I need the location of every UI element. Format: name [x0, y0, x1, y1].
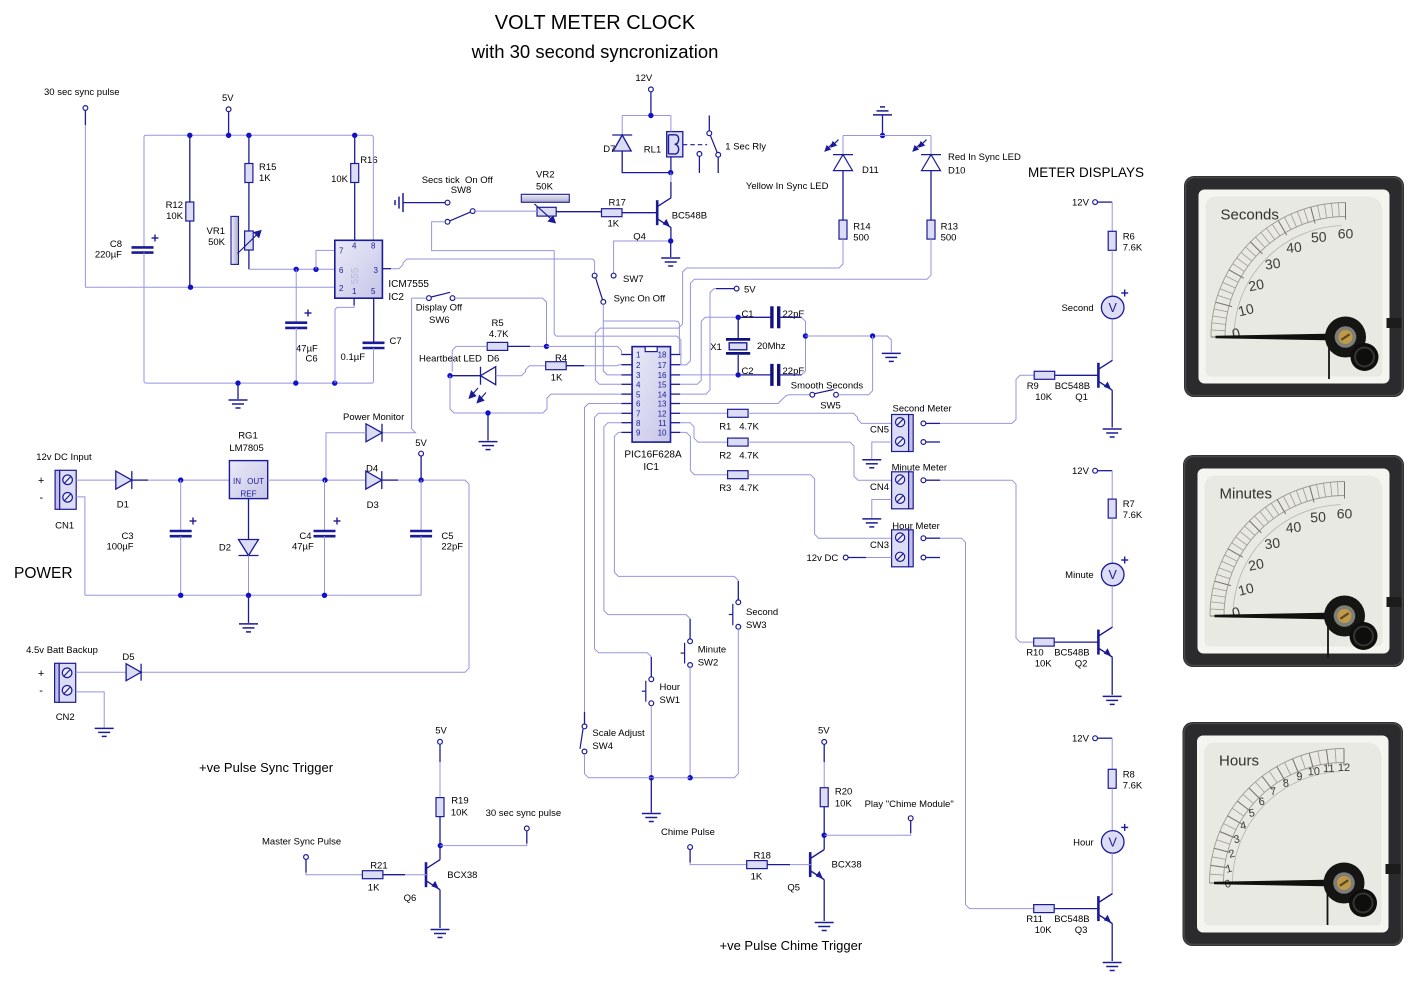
wire Q6 collector lead	[439, 846, 441, 860]
svg-text:5V: 5V	[435, 726, 447, 737]
svg-text:SW8: SW8	[451, 185, 472, 196]
terminal SW7 common	[601, 300, 606, 305]
svg-text:IC2: IC2	[388, 292, 404, 303]
pin 9 lead	[622, 431, 633, 433]
meter display Hours	[1183, 722, 1404, 946]
svg-text:1 Sec Rly: 1 Sec Rly	[725, 142, 766, 153]
capacitor C3	[170, 531, 192, 536]
wire SW4 top lead	[584, 712, 586, 724]
wire Q4 emitter to SW7	[614, 241, 668, 273]
svg-text:C3: C3	[121, 531, 133, 542]
resistor R10	[1034, 638, 1055, 646]
wire SW6 to R5 net	[455, 298, 547, 346]
wire R4 right lead	[566, 365, 584, 367]
svg-text:C5: C5	[441, 531, 453, 542]
plus sign	[1121, 557, 1128, 564]
ground	[479, 442, 498, 450]
wire C4 bottom lead	[324, 536, 326, 595]
potentiometer VR1	[231, 216, 239, 264]
wire CN3 pin1 stub	[926, 537, 940, 539]
terminal relay contact NO	[716, 152, 721, 157]
capacitor C2	[772, 364, 779, 386]
LED D6 heartbeat	[481, 367, 496, 385]
wire SW2 to PIC pin8 net	[604, 423, 690, 619]
pin 6 lead	[622, 403, 633, 405]
svg-text:20: 20	[1247, 555, 1266, 574]
wire SW3 to PIC pin9 net	[614, 432, 738, 581]
svg-text:60: 60	[1338, 226, 1354, 242]
switch SW1	[642, 677, 654, 706]
svg-text:5V: 5V	[222, 93, 234, 104]
svg-text:18: 18	[658, 351, 667, 360]
wire 555 pin6 net	[249, 268, 335, 270]
wire to resistor	[1111, 471, 1113, 499]
svg-text:VOLT METER CLOCK: VOLT METER CLOCK	[495, 12, 696, 34]
svg-text:R1 4.7K: R1 4.7K	[719, 422, 759, 433]
svg-text:30: 30	[1264, 255, 1282, 273]
svg-text:+: +	[38, 668, 44, 680]
wire CN4 to R10 net	[940, 480, 1034, 642]
svg-text:LM7805: LM7805	[229, 443, 263, 454]
svg-text:1: 1	[636, 351, 641, 360]
terminal 12v DC	[843, 555, 848, 560]
svg-text:30: 30	[1264, 534, 1282, 552]
ground	[229, 400, 248, 408]
svg-text:+ve Pulse Sync Trigger: +ve Pulse Sync Trigger	[199, 760, 334, 775]
svg-text:10K: 10K	[1035, 925, 1053, 936]
svg-text:R9: R9	[1027, 381, 1039, 392]
wire R16 top lead	[354, 135, 356, 163]
pin 16 lead	[671, 374, 681, 376]
wire C3 bottom lead	[180, 536, 182, 595]
svg-text:BC548B: BC548B	[1055, 381, 1090, 392]
svg-text:R16: R16	[360, 155, 377, 166]
svg-text:5V: 5V	[818, 726, 830, 737]
junction	[668, 238, 673, 243]
svg-text:Play "Chime Module": Play "Chime Module"	[865, 799, 954, 810]
svg-text:1K: 1K	[368, 883, 380, 894]
svg-text:1K: 1K	[551, 373, 563, 384]
svg-text:22pF: 22pF	[783, 309, 805, 320]
svg-text:9: 9	[1296, 771, 1303, 783]
connector CN4	[892, 472, 914, 509]
wire C8 bottom lead	[143, 253, 145, 381]
junction	[226, 133, 231, 138]
svg-text:R15: R15	[259, 162, 276, 173]
svg-text:R7: R7	[1123, 499, 1135, 510]
wire 5V lead	[716, 288, 734, 290]
resistor R3	[728, 471, 749, 479]
svg-text:Minute: Minute	[698, 645, 727, 656]
svg-text:VR1: VR1	[207, 226, 225, 237]
wire C6 bottom lead	[295, 328, 297, 383]
svg-text:1: 1	[352, 287, 357, 296]
svg-text:R21: R21	[370, 861, 387, 872]
wire	[84, 110, 86, 125]
terminal relay arm	[707, 131, 712, 136]
svg-text:R20: R20	[835, 787, 852, 798]
svg-text:D10: D10	[948, 166, 965, 177]
wire relay blade	[710, 135, 717, 152]
wire SW1 to PIC pin7 net	[595, 413, 652, 657]
wire D7 to relay bottom	[622, 151, 668, 173]
wire Q4 emitter lead	[670, 228, 672, 241]
wire 12V lead	[1098, 737, 1113, 739]
wire SW7 to PIC pin3 net	[603, 304, 621, 375]
wire SW8 to PIC pin17 net	[432, 222, 681, 365]
svg-text:1K: 1K	[608, 219, 620, 230]
svg-text:50K: 50K	[208, 237, 226, 248]
wire base lead	[1055, 374, 1098, 376]
svg-text:C4: C4	[299, 531, 311, 542]
wire to R20	[823, 762, 825, 788]
wire	[1111, 892, 1113, 894]
svg-text:SW3: SW3	[746, 620, 767, 631]
wire to R19	[439, 762, 441, 798]
svg-text:CN5: CN5	[870, 425, 889, 436]
wire SW4 to switch bus	[585, 754, 691, 778]
svg-text:D7: D7	[603, 144, 615, 155]
resistor R19	[436, 798, 444, 817]
terminal SW5 throw	[834, 392, 839, 397]
svg-text:X1: X1	[710, 342, 722, 353]
plus sign	[334, 518, 341, 525]
potentiometer VR2	[521, 194, 569, 202]
svg-text:PIC16F628A: PIC16F628A	[624, 450, 682, 461]
svg-text:BC548B: BC548B	[1054, 914, 1089, 925]
wire resistor to meter	[1111, 518, 1113, 563]
wire 5V to PIC pin14 net	[680, 289, 716, 395]
capacitor C4	[314, 531, 336, 536]
svg-text:22pF: 22pF	[441, 542, 463, 553]
junction	[736, 315, 741, 320]
wire R15 top lead	[248, 135, 250, 163]
svg-text:OUT: OUT	[247, 477, 264, 486]
terminal 12V	[1093, 200, 1098, 205]
transistor Q5	[810, 850, 824, 880]
wire relay NC stub	[698, 156, 700, 173]
ground sideways	[395, 193, 403, 212]
svg-text:R18: R18	[754, 851, 771, 862]
svg-text:Q5: Q5	[787, 883, 800, 894]
wire CN5 to R9 net	[940, 375, 1034, 423]
pin 2 lead	[622, 364, 633, 366]
wire C3 top lead	[180, 480, 182, 531]
svg-text:6: 6	[339, 266, 344, 275]
wire CN4 pin1 stub	[926, 479, 940, 481]
svg-text:16: 16	[658, 371, 667, 380]
wire R21 right lead	[383, 874, 405, 876]
junction	[668, 170, 673, 175]
wire terminal stem	[305, 859, 307, 872]
wire Q4 ground stem	[670, 241, 672, 257]
junction	[447, 373, 452, 378]
svg-text:Minute: Minute	[1065, 570, 1094, 581]
pin 15 lead	[671, 383, 681, 385]
wire D4 anode to 5V rail	[326, 433, 366, 480]
resistor R9	[1034, 371, 1055, 379]
wire R5 to D6	[452, 346, 487, 371]
svg-text:10K: 10K	[1035, 392, 1053, 403]
svg-text:METER DISPLAYS: METER DISPLAYS	[1028, 165, 1144, 180]
wire C2 right lead	[779, 374, 802, 376]
wire 12V lead	[1098, 470, 1113, 472]
svg-text:12V: 12V	[1072, 734, 1090, 745]
ground	[882, 353, 901, 361]
svg-text:10K: 10K	[166, 211, 184, 222]
svg-text:C1: C1	[741, 309, 753, 320]
wire SW7 to PIC pin18 net	[603, 321, 680, 355]
terminal 30 sec sync pulse	[83, 106, 88, 111]
wire CN4 to ground	[872, 500, 892, 518]
plus sign	[190, 518, 197, 525]
svg-text:IC1: IC1	[643, 462, 659, 473]
wire oscillator ground bus	[146, 382, 372, 384]
junction	[188, 285, 193, 290]
svg-text:30 sec sync pulse: 30 sec sync pulse	[44, 87, 120, 98]
svg-text:9: 9	[636, 429, 641, 438]
junction	[178, 593, 183, 598]
wire 555 pin3 lead	[382, 268, 391, 270]
svg-text:CN3: CN3	[870, 540, 889, 551]
wire CN2 to D5	[76, 671, 126, 673]
svg-text:12v DC Input: 12v DC Input	[36, 452, 92, 463]
resistor R7	[1108, 499, 1116, 518]
diode D3	[366, 471, 382, 489]
wire D6 to R4	[496, 366, 546, 376]
junction	[293, 380, 298, 385]
wire to R21	[306, 873, 362, 875]
wire 5V top bus	[146, 134, 371, 136]
terminal 5V	[419, 451, 424, 456]
wire D10 top lead	[930, 136, 932, 155]
wire emitter to ground	[1111, 924, 1113, 961]
pin 5 lead	[622, 393, 633, 395]
ground	[239, 624, 258, 632]
wire R3 to CN3 net	[748, 475, 892, 539]
svg-text:BCX38: BCX38	[832, 860, 862, 871]
svg-text:R19: R19	[451, 796, 468, 807]
svg-text:7.6K: 7.6K	[1123, 242, 1143, 253]
svg-text:D3: D3	[367, 500, 379, 511]
wire to resistor	[1111, 202, 1113, 231]
LED D11	[833, 155, 853, 171]
wire emitter to ground	[1111, 657, 1113, 695]
svg-text:11: 11	[1323, 763, 1335, 775]
terminal CN4 pin1	[921, 478, 926, 483]
wire 555 pin2 net	[85, 125, 334, 287]
meter symbol Minute	[1101, 563, 1124, 586]
svg-text:SW6: SW6	[429, 315, 450, 326]
svg-text:40: 40	[1285, 519, 1302, 536]
svg-text:V: V	[1109, 301, 1118, 315]
pin 12 lead	[671, 412, 681, 414]
diode D1	[116, 471, 132, 489]
transistor Q6	[426, 860, 440, 890]
wire R4 to PIC pin2 net	[584, 365, 632, 366]
svg-text:Minutes: Minutes	[1220, 486, 1273, 503]
junction	[235, 380, 240, 385]
svg-text:SW1: SW1	[660, 695, 681, 706]
wire C4 top lead	[324, 480, 326, 531]
ground	[1103, 963, 1122, 971]
ground	[642, 814, 661, 822]
svg-text:Second: Second	[1061, 303, 1093, 314]
svg-text:CN2: CN2	[56, 712, 75, 723]
svg-text:VR2: VR2	[536, 170, 554, 181]
wire meter to collector	[1111, 853, 1113, 893]
svg-text:10: 10	[1307, 766, 1320, 779]
terminal CN5 pin2	[921, 440, 926, 445]
wire D1 to RG1	[148, 479, 229, 481]
svg-text:C2: C2	[741, 366, 753, 377]
wire R19 to collector	[439, 817, 441, 846]
resistor R1	[728, 409, 749, 417]
svg-text:C6: C6	[306, 354, 318, 365]
resistor R2	[728, 438, 749, 446]
wire SW3 top lead	[737, 581, 739, 600]
ground	[431, 930, 450, 938]
plus sign	[1121, 290, 1128, 297]
svg-text:D2: D2	[219, 543, 231, 554]
wire SW4 to PIC pin6 net	[585, 404, 622, 713]
svg-text:R5: R5	[492, 318, 504, 329]
wire LED ground stem	[882, 115, 884, 136]
terminal 12V	[649, 87, 654, 92]
svg-text:8: 8	[636, 419, 641, 428]
svg-text:10K: 10K	[1035, 659, 1053, 670]
junction	[187, 133, 192, 138]
svg-text:Second Meter: Second Meter	[893, 404, 952, 415]
wire 5V stem	[420, 456, 422, 480]
svg-text:D5: D5	[122, 652, 134, 663]
wire R15-VR1 lead	[248, 183, 250, 270]
wire SW2 to switch bus	[689, 667, 691, 777]
wire C5 top lead	[420, 480, 422, 531]
wire SW2 top lead	[689, 619, 691, 639]
wire relay to Q4 collector	[670, 173, 672, 182]
wire C8 top lead	[143, 137, 145, 247]
svg-text:R2 4.7K: R2 4.7K	[719, 451, 759, 462]
junction	[294, 267, 299, 272]
svg-text:4: 4	[636, 381, 641, 390]
svg-text:500: 500	[941, 233, 957, 244]
terminal SW8 contact B	[445, 219, 450, 224]
svg-text:R14: R14	[853, 222, 870, 233]
svg-text:Hour: Hour	[1073, 837, 1094, 848]
pin 7 lead	[622, 412, 633, 414]
svg-text:+: +	[38, 475, 44, 487]
svg-text:Hour: Hour	[660, 682, 681, 693]
svg-text:11: 11	[658, 419, 667, 428]
relay RL1	[667, 132, 683, 157]
wire sync pulse net	[440, 844, 527, 846]
resistor R16	[351, 164, 359, 183]
svg-text:7: 7	[636, 410, 641, 419]
meter display Minutes	[1183, 455, 1404, 667]
wire R16 to 555 pin4	[354, 183, 356, 241]
svg-text:12V: 12V	[1072, 198, 1090, 209]
wire D6 left lead	[452, 375, 480, 377]
wire to Q6 base	[405, 874, 428, 876]
wire PIC pin15 to C1/X1	[680, 317, 738, 384]
svg-text:3: 3	[636, 371, 641, 380]
svg-text:Hours: Hours	[1219, 753, 1259, 770]
wire 555 pin8 net	[372, 138, 374, 241]
junction	[649, 775, 654, 780]
svg-text:10K: 10K	[835, 799, 853, 810]
wire emitter to ground	[1111, 390, 1113, 427]
junction	[648, 113, 653, 118]
wire ground stem	[487, 413, 489, 441]
wire to R18	[690, 863, 747, 865]
svg-text:R6: R6	[1123, 231, 1135, 242]
capacitor C8	[132, 247, 154, 252]
svg-text:12V: 12V	[1072, 466, 1090, 477]
svg-text:SW5: SW5	[820, 401, 841, 412]
terminal 12V	[1093, 736, 1098, 741]
wire CN1 to D1	[76, 479, 116, 481]
terminal CN5 pin1	[921, 421, 926, 426]
resistor R13	[927, 220, 935, 239]
terminal 5V	[822, 740, 827, 745]
junction	[322, 593, 327, 598]
junction	[246, 593, 251, 598]
terminal SW7 pole B	[611, 273, 616, 278]
svg-text:R17: R17	[609, 198, 626, 209]
svg-text:Second: Second	[746, 607, 778, 618]
wire C6 top lead	[295, 269, 297, 322]
svg-text:14: 14	[658, 390, 667, 399]
terminal SW4 top	[582, 724, 587, 729]
wire terminal stem	[526, 831, 528, 844]
junction	[322, 477, 327, 482]
terminal 5V	[734, 286, 739, 291]
capacitor C6	[285, 323, 307, 328]
wire meter to collector	[1111, 586, 1113, 627]
resistor R11	[1034, 905, 1055, 913]
junction	[246, 133, 251, 138]
terminal SW8 contact A	[445, 200, 450, 205]
svg-text:17: 17	[658, 361, 667, 370]
svg-text:4: 4	[352, 242, 357, 251]
svg-text:555: 555	[350, 267, 361, 284]
svg-text:Display Off: Display Off	[416, 303, 463, 314]
wire R2 to CN4 net	[748, 442, 892, 480]
pin 11 lead	[671, 422, 681, 424]
resistor R8	[1108, 769, 1116, 788]
transistor Q3	[1098, 894, 1112, 924]
svg-text:6: 6	[636, 400, 641, 409]
wire Q4 collector lead	[670, 182, 672, 198]
junction	[822, 833, 827, 838]
svg-text:7: 7	[339, 247, 344, 256]
svg-text:V: V	[1109, 568, 1118, 582]
diode D4 power monitor	[366, 424, 382, 442]
wire crystal net to ground	[806, 336, 892, 352]
wire C7 bottom lead	[373, 348, 375, 381]
wire terminal stem	[910, 821, 912, 834]
wire 555 pin7 link	[316, 250, 335, 269]
pin 8 lead	[622, 422, 633, 424]
wire SW1 to switch bus	[650, 706, 652, 778]
ground	[95, 728, 114, 736]
wire SW5 blade	[815, 390, 834, 394]
wire	[228, 112, 230, 136]
wire PIC pin10 to R3 net	[680, 432, 727, 474]
wire X1 bottom lead	[737, 355, 739, 375]
wire 555 output net	[391, 259, 595, 273]
